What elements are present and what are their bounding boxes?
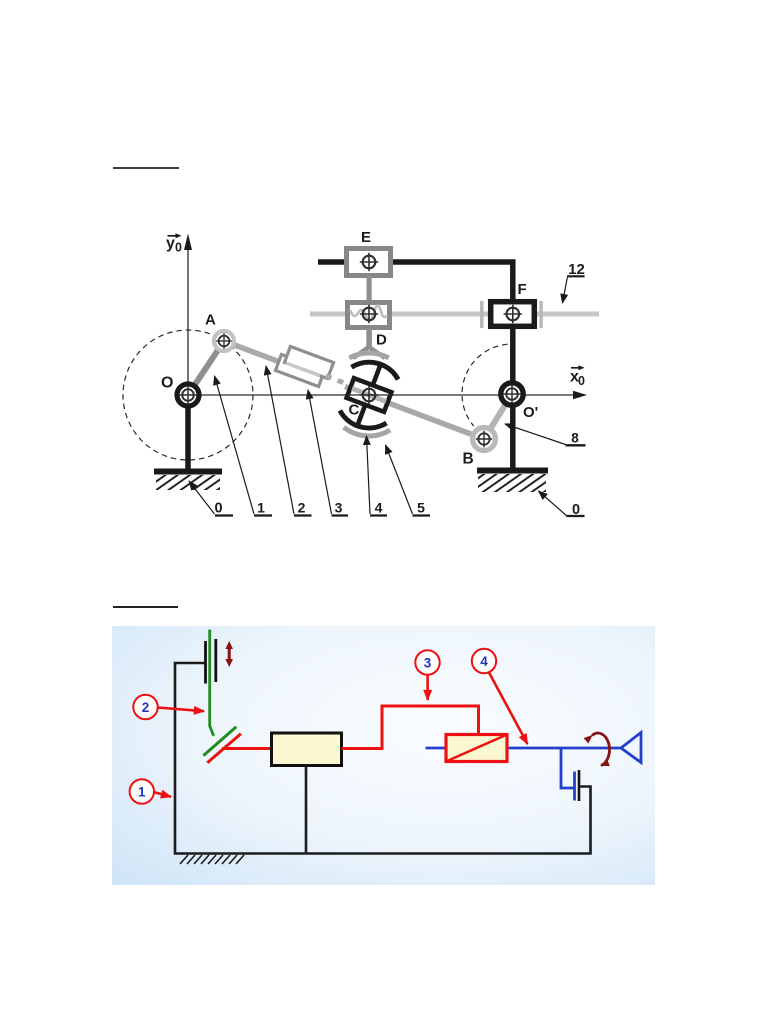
svg-text:F: F (518, 281, 527, 298)
svg-text:0: 0 (175, 241, 182, 255)
svg-text:3: 3 (424, 655, 432, 670)
svg-text:O: O (161, 375, 173, 392)
svg-text:A: A (205, 312, 216, 329)
svg-text:2: 2 (142, 700, 150, 715)
svg-text:y: y (166, 235, 175, 252)
svg-text:3: 3 (335, 500, 343, 516)
svg-text:O': O' (523, 404, 538, 421)
svg-text:5: 5 (417, 500, 425, 516)
svg-text:E: E (361, 229, 371, 246)
svg-text:0: 0 (578, 374, 585, 388)
svg-text:1: 1 (257, 500, 265, 516)
svg-text:C: C (349, 402, 360, 419)
svg-text:8: 8 (571, 431, 579, 446)
svg-text:1: 1 (138, 784, 146, 799)
svg-text:B: B (463, 451, 474, 468)
svg-text:D: D (376, 332, 387, 349)
svg-text:2: 2 (298, 500, 306, 516)
svg-text:4: 4 (375, 500, 383, 516)
svg-text:4: 4 (480, 654, 488, 669)
svg-text:0: 0 (214, 501, 222, 517)
